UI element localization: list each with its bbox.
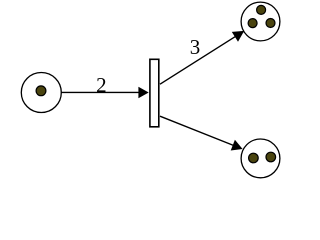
svg-text:3: 3 bbox=[190, 35, 201, 59]
place P3 (bottom right, 2 tokens) bbox=[241, 139, 280, 178]
token 2 in P2 bbox=[248, 19, 257, 28]
arc T1 to P3 wire bbox=[160, 116, 234, 145]
arrowhead of arc P1-T1 bbox=[138, 87, 148, 99]
token 1 in P2 bbox=[257, 5, 266, 14]
arc T1 to P2 (weight 3) wire bbox=[160, 36, 236, 84]
arrowhead of arc T1-P3 bbox=[231, 140, 243, 151]
svg-text:2: 2 bbox=[96, 73, 107, 97]
arc P1 to T1 (weight 2) wire bbox=[61, 91, 140, 93]
transition T1 bbox=[150, 59, 159, 127]
arrowhead of arc T1-P2 bbox=[232, 31, 244, 42]
place P2 (top right, 3 tokens) bbox=[241, 2, 280, 41]
token 1 in P3 bbox=[249, 153, 259, 163]
token in P1 bbox=[36, 86, 46, 96]
token 2 in P3 bbox=[266, 152, 276, 162]
token 3 in P2 bbox=[266, 19, 275, 28]
place P1 (left, 1 token) bbox=[21, 73, 61, 113]
